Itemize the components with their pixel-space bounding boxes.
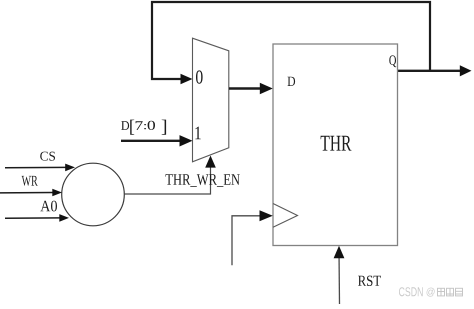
wire A0 input: [5, 217, 60, 219]
label CS: [40, 152, 55, 161]
wire clock input: [232, 216, 262, 265]
watermark CJK glyph blocks: [438, 288, 463, 296]
wire Q output: [398, 70, 461, 72]
arrowhead RST: [334, 246, 345, 258]
arrowhead WR: [52, 189, 62, 197]
arrowhead into D input: [260, 83, 273, 94]
register label THR: [321, 136, 352, 151]
wire WR input: [0, 192, 53, 194]
wire CS input: [5, 166, 66, 168]
label WR: [22, 176, 38, 186]
arrowhead select into mux bottom: [205, 156, 216, 168]
arrowhead clock input: [260, 210, 273, 221]
pin label Q: [389, 55, 396, 67]
wire D[7:0] into mux input 1: [121, 140, 181, 142]
wire feedback loop from Q output to mux input 0: [152, 2, 430, 79]
watermark @: [427, 288, 435, 297]
register THR: [273, 44, 398, 246]
arrowhead CS: [65, 164, 75, 172]
address decoder circle: [62, 163, 125, 226]
clock triangle: [273, 204, 298, 228]
wire RST: [338, 251, 341, 304]
label RST: [358, 276, 381, 286]
mux port label 0: [196, 70, 203, 83]
watermark CSDN: [399, 287, 423, 296]
label D[7:0]: [121, 120, 166, 135]
label THR_WR_EN: [166, 174, 240, 187]
wire THR_WR_EN select from decoder to mux: [124, 166, 210, 194]
arrowhead Q output: [460, 65, 472, 76]
pin label D: [288, 77, 296, 86]
arrowhead A0: [59, 214, 69, 222]
arrowhead into mux input 1: [180, 135, 193, 146]
multiplexer MUX: [193, 38, 229, 162]
mux port label 1: [195, 127, 200, 140]
label A0: [40, 201, 57, 212]
arrowhead into mux input 0: [181, 74, 193, 84]
wire mux output to D input: [229, 87, 261, 89]
